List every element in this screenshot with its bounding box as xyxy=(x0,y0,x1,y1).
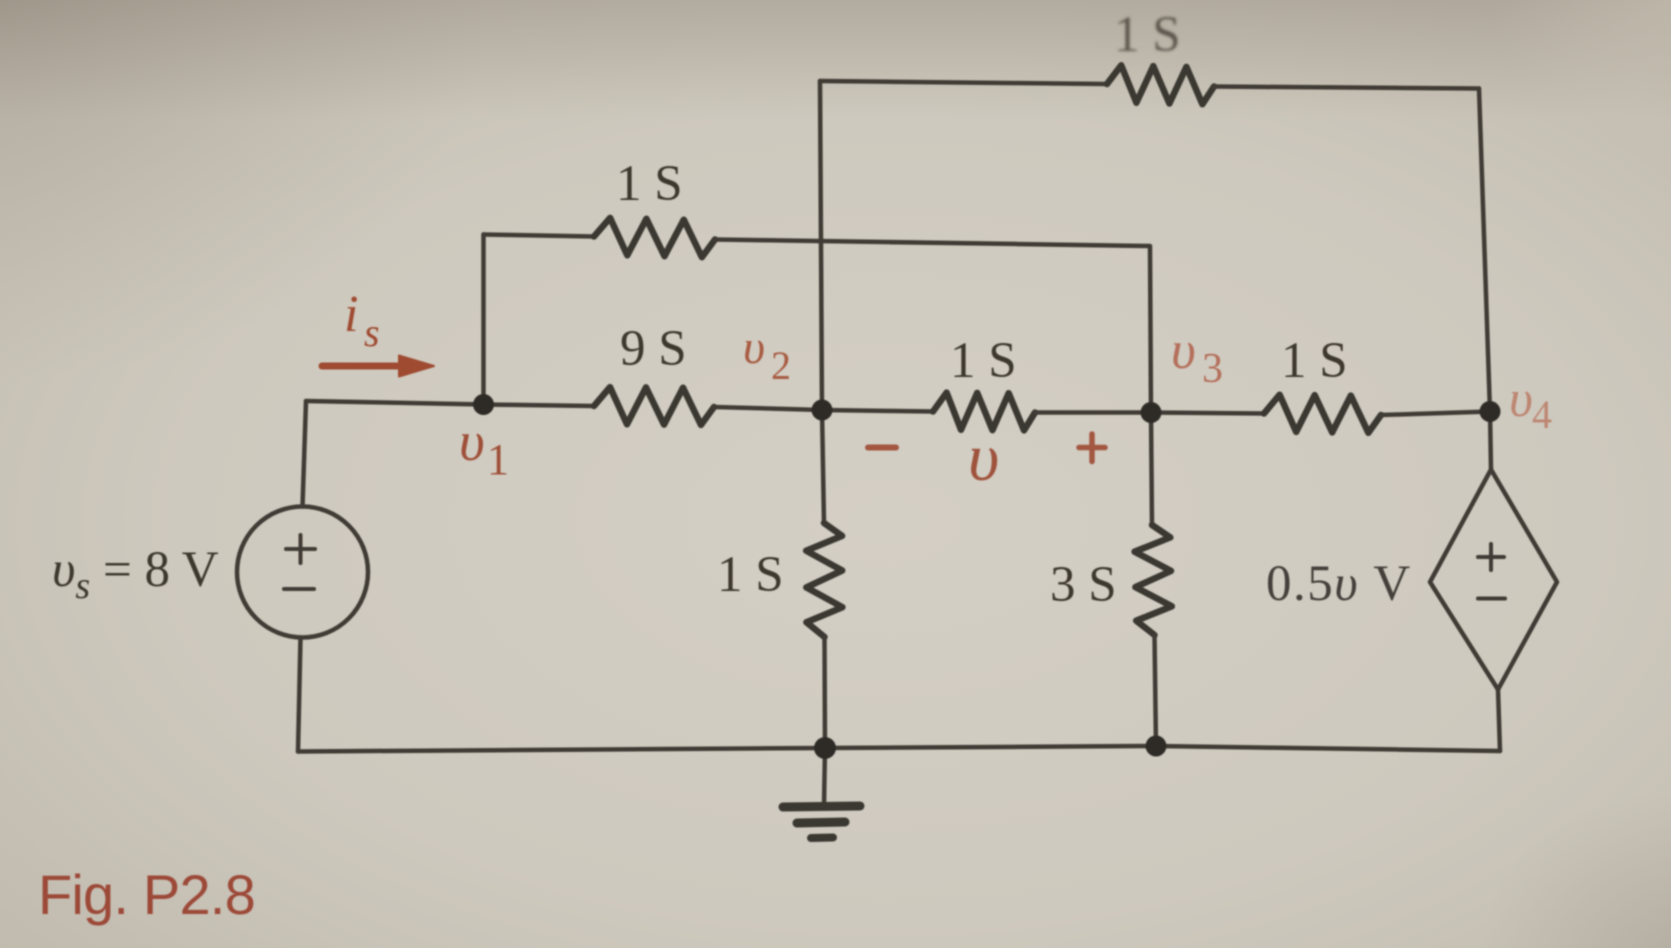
wire: tier-2 right run to v3 riser xyxy=(715,240,1151,413)
wire: tier-2 left lead xyxy=(484,235,595,237)
top shading band xyxy=(0,0,1671,120)
svg-text:1 S: 1 S xyxy=(1114,7,1181,63)
svg-text:υ: υ xyxy=(743,321,765,374)
node v2 dot xyxy=(812,400,833,421)
resistor 9 S xyxy=(594,387,714,425)
svg-text:3: 3 xyxy=(1202,346,1223,392)
svg-text:1 S: 1 S xyxy=(717,547,784,603)
wire: bottom rail xyxy=(298,746,1500,752)
wire: right 1S lead to v4 xyxy=(1381,412,1490,416)
wire: top rail right lead xyxy=(1214,87,1479,89)
svg-text:9 S: 9 S xyxy=(620,321,687,377)
wire: 3S bottom lead xyxy=(1155,635,1157,746)
svg-text:i: i xyxy=(344,286,358,343)
wire: left column from main row down to source top xyxy=(303,401,307,507)
dependent source minus sign xyxy=(1478,597,1505,601)
vs plus sign xyxy=(286,535,315,563)
svg-text:υ: υ xyxy=(968,419,999,495)
wire: vertical 1S bottom lead to ground node xyxy=(822,637,827,748)
svg-text:1 S: 1 S xyxy=(950,333,1017,389)
dependent source 0.5v diamond xyxy=(1430,470,1557,690)
node v1 dot xyxy=(473,394,494,415)
wire: v2 down to vertical 1S xyxy=(822,410,824,523)
svg-text:4: 4 xyxy=(1532,392,1552,437)
node v4 dot xyxy=(1480,401,1501,422)
wire: main row left segment to v1 and 9S left lead xyxy=(306,401,594,406)
wire: middle vertical from top rail to v2 xyxy=(820,81,822,410)
ground bar 2 xyxy=(797,822,845,823)
voltage source vs circle xyxy=(237,507,368,638)
svg-text:1: 1 xyxy=(487,435,509,484)
vs minus sign xyxy=(284,587,314,591)
resistor 1 S (v2-v3) xyxy=(933,393,1035,431)
svg-text:υ: υ xyxy=(1171,320,1196,380)
svg-text:s: s xyxy=(364,310,380,355)
wire: top rail left lead xyxy=(820,81,1107,84)
node v3 dot xyxy=(1141,402,1162,423)
svg-text:3 S: 3 S xyxy=(1050,557,1117,613)
node at 3S bottom dot xyxy=(1146,736,1167,757)
ground bar 3 xyxy=(811,834,833,843)
resistor 1 S (v3-v4) xyxy=(1264,395,1381,433)
ground bar 1 xyxy=(783,806,860,807)
svg-text:υ: υ xyxy=(1509,371,1533,428)
dependent source plus sign xyxy=(1478,544,1504,570)
svg-text:υ: υ xyxy=(459,411,485,473)
wire: right column top to v4 xyxy=(1479,89,1490,412)
resistor 3 S (vertical) xyxy=(1135,525,1172,635)
svg-text:1 S: 1 S xyxy=(616,156,683,212)
ground stub xyxy=(824,748,825,806)
wire: v1 riser xyxy=(481,235,486,405)
resistor 1 S (tier-2) xyxy=(594,218,715,257)
bottom-right shade xyxy=(1070,460,1671,948)
wire: v4 to diamond top xyxy=(1490,412,1491,470)
top-left corner shadow xyxy=(0,0,900,700)
label plus (red, right of v) xyxy=(1079,434,1105,462)
current arrow is xyxy=(322,363,408,370)
wire: to v3 and right 1S lead xyxy=(1035,413,1264,414)
wire: 9S right lead to v2 xyxy=(714,407,933,412)
ground node dot xyxy=(814,737,836,759)
wire: source bottom to bottom-left corner xyxy=(298,638,301,752)
svg-text:2: 2 xyxy=(771,343,791,388)
svg-text:0.5υ V: 0.5υ V xyxy=(1266,556,1412,612)
resistor 1 S (top) xyxy=(1107,65,1214,104)
wire: v3 down to 3S xyxy=(1151,413,1152,526)
top-right light xyxy=(1070,0,1671,500)
resistor 1 S (vertical) xyxy=(806,523,842,637)
wire: diamond bottom to bottom-right corner xyxy=(1498,690,1500,752)
svg-text:Fig. P2.8: Fig. P2.8 xyxy=(38,863,255,926)
label minus (red, left of v) xyxy=(868,445,896,451)
svg-text:1 S: 1 S xyxy=(1281,333,1348,389)
